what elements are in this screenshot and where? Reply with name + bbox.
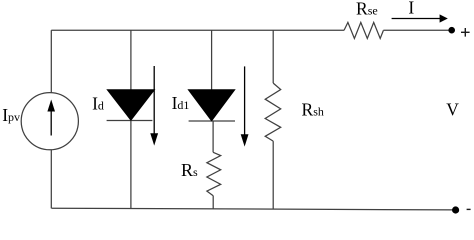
svg-text:V: V: [446, 99, 459, 119]
svg-text:Rse: Rse: [356, 0, 378, 18]
svg-text:I: I: [408, 0, 414, 18]
